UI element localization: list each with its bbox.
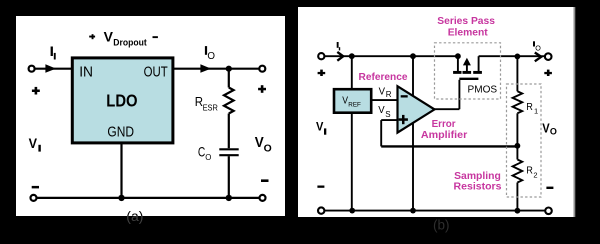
svg-text:Series Pass: Series Pass [437, 16, 495, 27]
svg-text:V: V [379, 86, 385, 97]
svg-text:O: O [264, 143, 272, 154]
svg-text:REF: REF [348, 102, 361, 109]
svg-text:Resistors: Resistors [454, 182, 502, 193]
svg-text:R: R [526, 166, 533, 177]
svg-text:O: O [535, 44, 541, 53]
svg-text:Amplifier: Amplifier [421, 130, 467, 141]
svg-text:C: C [198, 143, 205, 159]
svg-text:IN: IN [79, 64, 93, 81]
svg-text:S: S [385, 110, 390, 119]
svg-text:GND: GND [107, 124, 134, 141]
svg-text:Error: Error [432, 119, 456, 130]
svg-text:ESR: ESR [203, 103, 218, 113]
svg-text:LDO: LDO [106, 91, 137, 111]
svg-text:R: R [386, 90, 392, 99]
svg-text:V: V [316, 120, 323, 134]
svg-text:Sampling: Sampling [454, 171, 501, 182]
svg-text:V: V [542, 121, 550, 136]
svg-text:O: O [207, 51, 215, 62]
svg-text:OUT: OUT [144, 64, 168, 81]
svg-text:Dropout: Dropout [113, 37, 146, 47]
svg-text:V: V [378, 105, 384, 116]
svg-text:V: V [255, 134, 264, 151]
svg-text:PMOS: PMOS [468, 85, 498, 96]
svg-text:1: 1 [534, 106, 538, 115]
svg-text:O: O [205, 153, 211, 162]
svg-text:O: O [550, 127, 557, 137]
svg-text:V: V [29, 135, 38, 151]
svg-text:V: V [104, 29, 114, 45]
svg-text:2: 2 [533, 171, 537, 180]
svg-text:Reference: Reference [359, 72, 408, 83]
svg-text:Element: Element [448, 28, 489, 39]
svg-text:(b): (b) [433, 218, 450, 233]
svg-text:R: R [526, 102, 533, 113]
